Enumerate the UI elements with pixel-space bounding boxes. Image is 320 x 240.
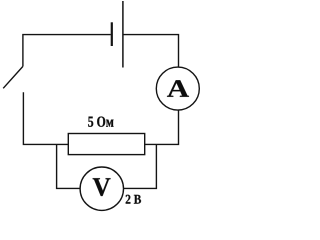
wire voltmeter branch left (57, 144, 81, 188)
resistor R body (68, 134, 144, 155)
switch S blade (open) (3, 66, 23, 88)
resistor value label 5 Ом (88, 117, 113, 127)
voltmeter reading label 2 В (126, 195, 141, 204)
voltmeter label V (93, 178, 111, 196)
battery GB1 long thin plate (122, 1, 124, 68)
wire ammeter bottom to main wire right segment (145, 110, 179, 144)
ammeter label A (167, 80, 189, 97)
voltmeter V circle (80, 167, 123, 210)
wire voltmeter branch right (123, 144, 156, 188)
wire top-left: left upper vertical and top horizontal to battery (23, 35, 111, 67)
battery GB1 short thick plate (111, 22, 113, 46)
ammeter A circle (156, 67, 199, 110)
wire left lower stub and main wire left segment (23, 92, 68, 144)
wire battery to top-right corner down to ammeter (123, 35, 179, 68)
